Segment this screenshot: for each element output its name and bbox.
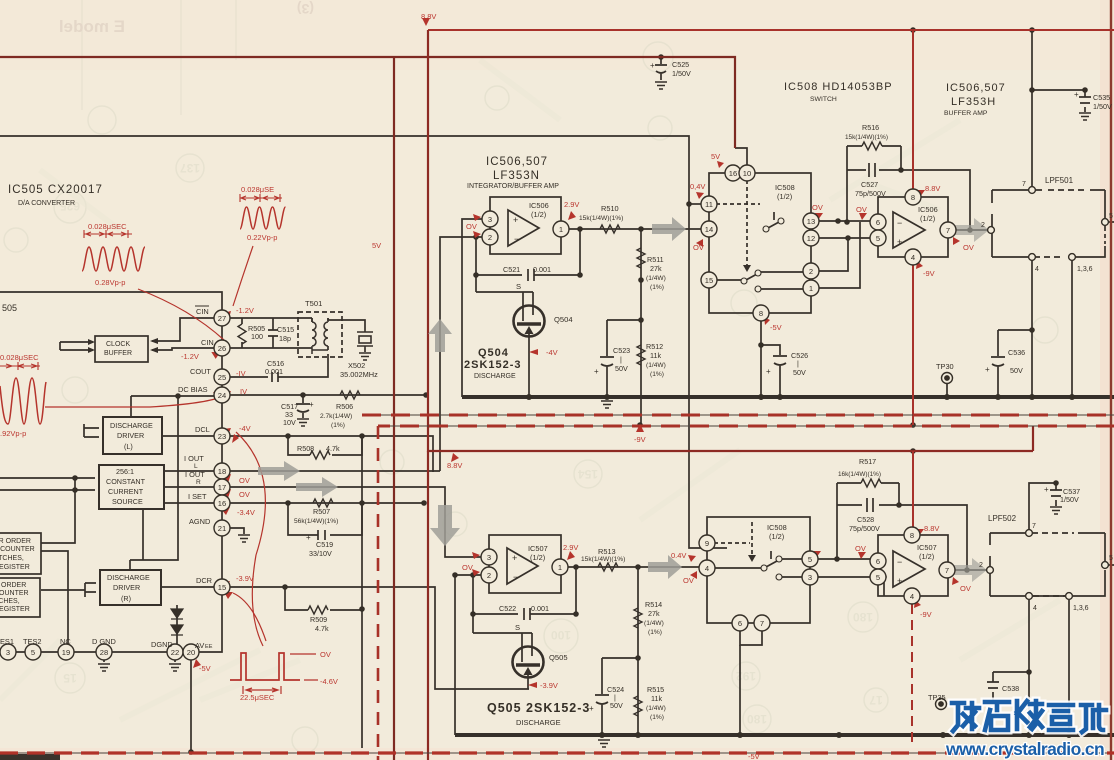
svg-text:5: 5 — [1109, 555, 1113, 562]
svg-text:IC507: IC507 — [917, 543, 937, 552]
svg-text:IC508: IC508 — [767, 523, 787, 532]
svg-text:2.9V: 2.9V — [564, 200, 579, 209]
svg-text:3: 3 — [487, 553, 491, 562]
svg-text:28: 28 — [100, 648, 108, 657]
svg-text:6: 6 — [876, 557, 880, 566]
svg-text:2: 2 — [488, 233, 492, 242]
svg-text:180: 180 — [853, 610, 873, 624]
svg-text:2: 2 — [809, 267, 813, 276]
svg-text:X502: X502 — [348, 361, 365, 370]
svg-text:15k(1/4W)(1%): 15k(1/4W)(1%) — [579, 215, 623, 222]
svg-text:5: 5 — [876, 234, 880, 243]
svg-text:0.4V: 0.4V — [671, 551, 686, 560]
svg-text:R510: R510 — [601, 204, 619, 213]
svg-text:-1.2V: -1.2V — [236, 306, 254, 315]
svg-text:|: | — [797, 359, 799, 368]
svg-text:CLOCK: CLOCK — [106, 341, 130, 348]
svg-text:IC506: IC506 — [529, 201, 549, 210]
svg-text:R516: R516 — [862, 123, 879, 132]
svg-text:+: + — [897, 237, 902, 247]
svg-text:15k(1/4W)(1%): 15k(1/4W)(1%) — [845, 134, 888, 141]
svg-text:1,3,6: 1,3,6 — [1077, 266, 1093, 273]
svg-text:22: 22 — [171, 648, 179, 657]
svg-text:-9V: -9V — [923, 269, 935, 278]
svg-text:11k: 11k — [650, 351, 661, 360]
svg-text:OV: OV — [683, 576, 694, 585]
svg-text:DISCHARGE: DISCHARGE — [107, 573, 150, 582]
svg-text:(1%): (1%) — [331, 422, 345, 429]
svg-text:1/50V: 1/50V — [1093, 102, 1112, 111]
svg-text:5: 5 — [1109, 213, 1113, 220]
svg-text:−: − — [513, 572, 518, 582]
svg-text:DC BIAS: DC BIAS — [178, 385, 208, 394]
svg-text:8: 8 — [759, 309, 763, 318]
svg-text:-3.9V: -3.9V — [236, 574, 254, 583]
svg-text:AV: AV — [195, 641, 204, 650]
svg-text:S: S — [515, 623, 520, 632]
svg-text:-4.6V: -4.6V — [320, 677, 338, 686]
svg-text:I OUT: I OUT — [184, 454, 204, 463]
svg-text:-3.4V: -3.4V — [237, 508, 255, 517]
svg-text:4: 4 — [910, 592, 914, 601]
svg-text:CONSTANT: CONSTANT — [106, 477, 146, 486]
svg-text:4: 4 — [1035, 266, 1039, 273]
svg-text:(1/4W): (1/4W) — [646, 275, 666, 282]
svg-text:505: 505 — [2, 303, 17, 313]
svg-text:26: 26 — [218, 344, 226, 353]
svg-text:-4V: -4V — [546, 348, 558, 357]
svg-text:D/A CONVERTER: D/A CONVERTER — [18, 200, 75, 207]
svg-text:COUT: COUT — [190, 367, 211, 376]
svg-text:(1/2): (1/2) — [531, 210, 546, 219]
svg-text:0.028μSEC: 0.028μSEC — [88, 222, 127, 231]
svg-text:C538: C538 — [1002, 684, 1019, 693]
svg-text:R514: R514 — [645, 600, 662, 609]
svg-text:4: 4 — [911, 253, 915, 262]
svg-text:+: + — [513, 215, 518, 225]
svg-text:16: 16 — [729, 169, 737, 178]
svg-text:+: + — [897, 576, 902, 586]
svg-text:C535: C535 — [1093, 93, 1110, 102]
svg-text:0.001: 0.001 — [533, 265, 551, 274]
svg-text:24: 24 — [218, 391, 226, 400]
svg-text:IC507: IC507 — [528, 544, 548, 553]
svg-text:(1%): (1%) — [650, 714, 664, 721]
svg-text:-4V: -4V — [239, 424, 251, 433]
svg-text:SWITCH: SWITCH — [810, 96, 837, 103]
svg-text:8.8V: 8.8V — [447, 461, 462, 470]
svg-text:25: 25 — [218, 373, 226, 382]
svg-text:+: + — [512, 553, 517, 563]
svg-text:15: 15 — [63, 671, 77, 685]
svg-text:BUFFER AMP: BUFFER AMP — [944, 110, 988, 117]
svg-text:DRIVER: DRIVER — [113, 583, 140, 592]
svg-text:(L): (L) — [124, 442, 133, 451]
svg-text:D GND: D GND — [92, 637, 116, 646]
svg-text:www.crystalradio.cn: www.crystalradio.cn — [945, 739, 1104, 759]
svg-text:2: 2 — [487, 571, 491, 580]
svg-text:Q504: Q504 — [478, 347, 509, 359]
svg-text:+: + — [309, 400, 314, 409]
svg-text:7: 7 — [760, 619, 764, 628]
svg-text:OV: OV — [855, 544, 866, 553]
svg-text:DISCHARGE: DISCHARGE — [474, 373, 516, 380]
svg-text:T501: T501 — [305, 299, 322, 308]
svg-text:OV: OV — [963, 243, 974, 252]
svg-text:TP35: TP35 — [928, 693, 946, 702]
svg-text:TP30: TP30 — [936, 362, 954, 371]
svg-text:(1/4W): (1/4W) — [646, 362, 666, 369]
svg-text:LPF502: LPF502 — [988, 514, 1017, 523]
svg-text:7: 7 — [1032, 523, 1036, 530]
svg-text:IC508: IC508 — [775, 183, 795, 192]
svg-text:22.5μSEC: 22.5μSEC — [240, 693, 275, 702]
svg-text:R: R — [196, 479, 201, 486]
svg-text:IC506,507: IC506,507 — [946, 82, 1006, 94]
svg-text:CIN: CIN — [196, 307, 209, 316]
svg-text:5: 5 — [31, 648, 35, 657]
svg-text:DRIVER: DRIVER — [117, 431, 144, 440]
svg-text:1/50V: 1/50V — [1060, 495, 1079, 504]
svg-text:I OUT: I OUT — [185, 470, 205, 479]
svg-text:R ORDER: R ORDER — [0, 582, 26, 589]
svg-text:10V: 10V — [283, 418, 296, 427]
svg-text:+: + — [1044, 485, 1049, 494]
svg-text:154: 154 — [578, 467, 598, 481]
svg-text:1/50V: 1/50V — [672, 69, 691, 78]
svg-text:(1%): (1%) — [650, 284, 664, 291]
svg-text:OV: OV — [320, 650, 331, 659]
svg-text:50V: 50V — [610, 701, 623, 710]
svg-text:C536: C536 — [1008, 348, 1025, 357]
svg-text:C522: C522 — [499, 604, 516, 613]
svg-text:IC508 HD14053BP: IC508 HD14053BP — [784, 81, 893, 93]
svg-text:(1/2): (1/2) — [919, 552, 934, 561]
svg-text:ES1: ES1 — [0, 637, 14, 646]
svg-text:33/10V: 33/10V — [309, 549, 332, 558]
svg-text:4.7k: 4.7k — [326, 444, 340, 453]
svg-text:7: 7 — [946, 226, 950, 235]
svg-text:75p/500V: 75p/500V — [849, 524, 880, 533]
svg-text:REGISTER: REGISTER — [0, 564, 30, 571]
svg-text:4: 4 — [1033, 605, 1037, 612]
svg-text:50V: 50V — [615, 364, 628, 373]
svg-text:IC506,507: IC506,507 — [486, 156, 548, 168]
svg-text:C519: C519 — [316, 540, 333, 549]
svg-text:1,3,6: 1,3,6 — [1073, 605, 1089, 612]
svg-text:OV: OV — [239, 490, 250, 499]
svg-text:OV: OV — [239, 476, 250, 485]
svg-text:R515: R515 — [647, 685, 664, 694]
svg-text:-5V: -5V — [199, 664, 211, 673]
svg-text:C528: C528 — [857, 515, 874, 524]
svg-text:7: 7 — [945, 566, 949, 575]
svg-text:11: 11 — [705, 200, 713, 209]
svg-text:C515: C515 — [277, 325, 294, 334]
svg-text:Q505: Q505 — [549, 653, 568, 662]
svg-text:-9V: -9V — [920, 610, 932, 619]
svg-text:LF353H: LF353H — [951, 96, 996, 108]
svg-text:2.9V: 2.9V — [563, 543, 578, 552]
svg-text:8.8V: 8.8V — [924, 524, 939, 533]
svg-text:OV: OV — [466, 222, 477, 231]
svg-text:0.28Vp-p: 0.28Vp-p — [95, 278, 125, 287]
svg-text:4.7k: 4.7k — [315, 624, 329, 633]
svg-text:DCR: DCR — [196, 576, 212, 585]
svg-text:0.001: 0.001 — [531, 604, 549, 613]
svg-text:8: 8 — [910, 531, 914, 540]
svg-text:17: 17 — [869, 693, 883, 707]
svg-text:DGND: DGND — [151, 640, 173, 649]
svg-text:|: | — [620, 355, 622, 364]
svg-text:14: 14 — [705, 225, 713, 234]
svg-text:R513: R513 — [598, 547, 616, 556]
svg-text:R506: R506 — [336, 402, 353, 411]
svg-text:(1%): (1%) — [650, 371, 664, 378]
svg-text:-1.2V: -1.2V — [181, 352, 199, 361]
svg-text:S: S — [516, 282, 521, 291]
svg-text:OV: OV — [856, 205, 867, 214]
svg-text:13: 13 — [807, 217, 815, 226]
svg-text:21: 21 — [218, 524, 226, 533]
svg-text:16k(1/4W)(1%): 16k(1/4W)(1%) — [838, 471, 881, 478]
svg-text:75p/500V: 75p/500V — [855, 189, 886, 198]
svg-text:OV: OV — [693, 243, 704, 252]
svg-text:15: 15 — [218, 583, 226, 592]
svg-text:(1/2): (1/2) — [769, 532, 784, 541]
svg-text:C523: C523 — [613, 346, 630, 355]
svg-text:19: 19 — [62, 648, 70, 657]
svg-text:2.7k(1/4W): 2.7k(1/4W) — [320, 413, 352, 420]
svg-text:E model: E model — [59, 17, 125, 36]
svg-text:3: 3 — [808, 573, 812, 582]
svg-text:23: 23 — [218, 432, 226, 441]
svg-text:8.8V: 8.8V — [925, 184, 940, 193]
svg-text:+: + — [766, 367, 771, 376]
svg-text:(1/4W): (1/4W) — [646, 705, 666, 712]
svg-text:(1/2): (1/2) — [920, 214, 935, 223]
svg-text:C526: C526 — [791, 351, 808, 360]
svg-text:+: + — [306, 533, 311, 542]
svg-text:−: − — [897, 218, 902, 228]
svg-text:OV: OV — [960, 584, 971, 593]
svg-text:17: 17 — [218, 483, 226, 492]
svg-text:50V: 50V — [793, 368, 806, 377]
svg-text:18p: 18p — [279, 334, 291, 343]
svg-text:LF353N: LF353N — [493, 170, 540, 182]
svg-text:4: 4 — [705, 564, 709, 573]
svg-text:137: 137 — [180, 161, 200, 175]
svg-text:(1%): (1%) — [648, 629, 662, 636]
svg-text:-5V: -5V — [770, 323, 782, 332]
svg-text:10: 10 — [743, 169, 751, 178]
svg-text:12: 12 — [807, 234, 815, 243]
svg-text:6: 6 — [876, 218, 880, 227]
svg-text:(1/4W): (1/4W) — [644, 620, 664, 627]
svg-text:L: L — [194, 463, 198, 470]
svg-text:NC: NC — [60, 637, 71, 646]
svg-text:DCL: DCL — [195, 425, 210, 434]
svg-text:3: 3 — [6, 648, 10, 657]
svg-text:R512: R512 — [646, 342, 663, 351]
svg-text:35.002MHz: 35.002MHz — [340, 370, 378, 379]
svg-text:256:1: 256:1 — [116, 467, 134, 476]
svg-text:27k: 27k — [648, 609, 660, 618]
svg-text:27: 27 — [218, 314, 226, 323]
svg-text:(1/2): (1/2) — [777, 192, 792, 201]
svg-text:11k: 11k — [651, 694, 662, 703]
svg-text:ATCHES,: ATCHES, — [0, 555, 24, 562]
svg-text:(3): (3) — [297, 1, 314, 17]
svg-text:C527: C527 — [861, 180, 878, 189]
svg-text:C521: C521 — [503, 265, 520, 274]
svg-text:1: 1 — [558, 563, 562, 572]
svg-text:IC506: IC506 — [918, 205, 938, 214]
svg-text:2: 2 — [979, 562, 983, 569]
svg-text:7: 7 — [1022, 181, 1026, 188]
svg-text:5V: 5V — [372, 241, 381, 250]
svg-text:DISCHARGE: DISCHARGE — [110, 421, 153, 430]
svg-text:9: 9 — [705, 539, 709, 548]
svg-text:ER ORDER: ER ORDER — [0, 538, 31, 545]
svg-text:-3.9V: -3.9V — [540, 681, 558, 690]
svg-text:CURRENT: CURRENT — [108, 487, 144, 496]
svg-text:27k: 27k — [650, 264, 662, 273]
svg-text:0.22Vp-p: 0.22Vp-p — [247, 233, 277, 242]
svg-text:T COUNTER: T COUNTER — [0, 546, 35, 553]
svg-text:1: 1 — [809, 284, 813, 293]
svg-text:3: 3 — [488, 215, 492, 224]
svg-text:OV: OV — [812, 203, 823, 212]
svg-text:5: 5 — [876, 573, 880, 582]
svg-text:100: 100 — [551, 628, 571, 642]
svg-text:C525: C525 — [672, 60, 689, 69]
svg-text:20: 20 — [187, 648, 195, 657]
svg-text:5V: 5V — [711, 152, 720, 161]
svg-text:BUFFER: BUFFER — [104, 350, 132, 357]
svg-text:0.028μSE: 0.028μSE — [241, 185, 274, 194]
svg-text:LPF501: LPF501 — [1045, 176, 1074, 185]
svg-text:R508: R508 — [297, 444, 314, 453]
svg-text:SOURCE: SOURCE — [112, 497, 143, 506]
svg-text:0.028μSEC: 0.028μSEC — [0, 353, 39, 362]
svg-text:2: 2 — [981, 222, 985, 229]
svg-text:IC505 CX20017: IC505 CX20017 — [8, 184, 103, 196]
svg-text:100: 100 — [251, 332, 263, 341]
svg-text:0.001: 0.001 — [265, 367, 283, 376]
svg-text:REGISTER: REGISTER — [0, 606, 30, 613]
svg-text:(R): (R) — [121, 594, 131, 603]
svg-text:R507: R507 — [313, 507, 330, 516]
svg-text:1: 1 — [559, 225, 563, 234]
svg-text:192: 192 — [736, 669, 756, 683]
svg-text:2SK152-3: 2SK152-3 — [464, 359, 522, 371]
svg-text:8.8V: 8.8V — [421, 12, 436, 21]
svg-text:AGND: AGND — [189, 517, 210, 526]
svg-text:15: 15 — [705, 276, 713, 285]
svg-text:−: − — [897, 557, 902, 567]
svg-text:0,4V: 0,4V — [690, 182, 705, 191]
svg-text:+: + — [594, 367, 599, 376]
svg-text:TCHES,: TCHES, — [0, 598, 20, 605]
svg-text:Q504: Q504 — [554, 315, 573, 324]
svg-text:5: 5 — [808, 555, 812, 564]
svg-text:(1/2): (1/2) — [530, 553, 545, 562]
svg-text:50V: 50V — [1010, 366, 1023, 375]
svg-text:6: 6 — [738, 619, 742, 628]
svg-text:15k(1/4W)(1%): 15k(1/4W)(1%) — [581, 556, 625, 563]
svg-text:TES2: TES2 — [23, 637, 41, 646]
svg-text:.92Vp-p: .92Vp-p — [0, 429, 26, 438]
svg-text:R517: R517 — [859, 457, 876, 466]
svg-text:+: + — [1074, 90, 1079, 99]
svg-text:180: 180 — [747, 712, 767, 726]
svg-text:R511: R511 — [647, 255, 664, 264]
svg-text:I SET: I SET — [188, 492, 207, 501]
svg-text:18: 18 — [218, 467, 226, 476]
svg-text:8: 8 — [911, 193, 915, 202]
svg-text:DISCHARGE: DISCHARGE — [516, 718, 561, 727]
svg-text:-IV: -IV — [236, 369, 246, 378]
svg-text:+: + — [650, 61, 655, 70]
svg-text:-5V: -5V — [748, 752, 760, 760]
svg-text:CIN: CIN — [201, 338, 214, 347]
svg-text:IV: IV — [240, 387, 247, 396]
svg-text:-9V: -9V — [634, 435, 646, 444]
svg-text:INTEGRATOR/BUFFER AMP: INTEGRATOR/BUFFER AMP — [467, 183, 559, 190]
svg-text:Q505 2SK152-3: Q505 2SK152-3 — [487, 701, 590, 715]
svg-text:56k(1/4W)(1%): 56k(1/4W)(1%) — [294, 518, 338, 525]
svg-text:COUNTER: COUNTER — [0, 590, 29, 597]
svg-text:OV: OV — [462, 563, 473, 572]
svg-text:+: + — [985, 365, 990, 374]
svg-text:16: 16 — [218, 499, 226, 508]
svg-text:−: − — [514, 234, 519, 244]
svg-text:R509: R509 — [310, 615, 327, 624]
svg-text:EE: EE — [205, 644, 213, 650]
